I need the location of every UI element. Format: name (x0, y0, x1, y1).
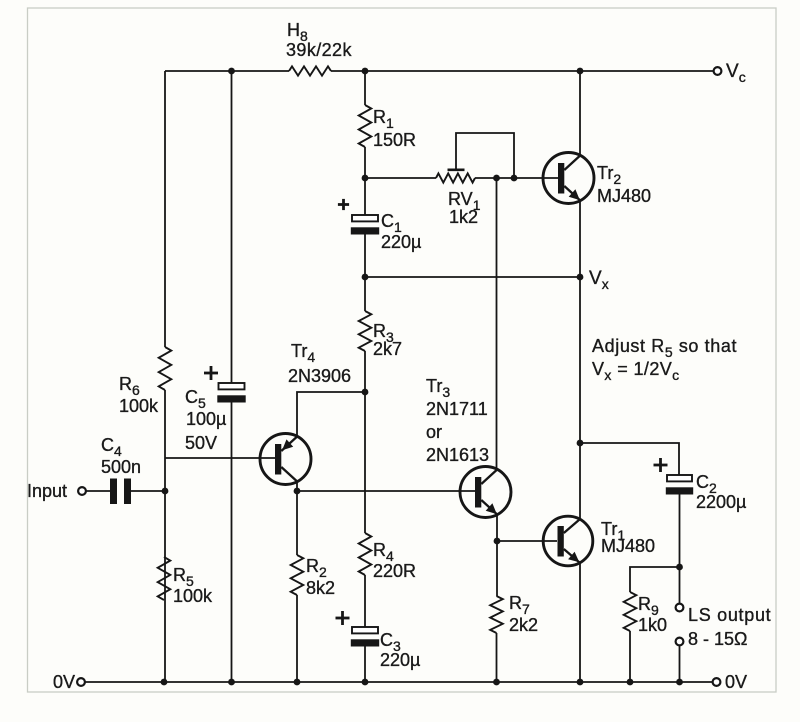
svg-text:Vx = 1/2Vc: Vx = 1/2Vc (592, 359, 680, 383)
plus sign C1 (338, 203, 349, 206)
capacitor C1 plates (352, 215, 378, 221)
svg-text:or: or (426, 422, 442, 442)
resistor R5 (158, 557, 171, 600)
wire - Tr2 emitter down to Tr1 collector (579, 201, 581, 520)
wire - R1/C1 node to RV1 (365, 177, 436, 179)
wire - Tr4 collector node down to R2 (296, 491, 298, 555)
junction dot C1/R3/Vx node (362, 274, 369, 281)
plus sign C2 (654, 464, 668, 467)
svg-text:R7: R7 (509, 593, 530, 617)
plus sign C5 (204, 372, 218, 375)
wire - C3 bottom to ground rail (364, 647, 366, 683)
wire - C5 branch from top rail (231, 71, 233, 383)
svg-text:2200µ: 2200µ (696, 492, 746, 512)
svg-text:C5: C5 (185, 387, 206, 411)
svg-text:R6: R6 (119, 374, 140, 398)
svg-text:R1: R1 (373, 107, 394, 131)
capacitor C3 plates (352, 627, 378, 633)
junction dot ground/Tr1 emitter (577, 679, 584, 686)
svg-text:39k/22k: 39k/22k (286, 40, 352, 60)
svg-text:150R: 150R (373, 130, 416, 150)
RV1 wiper tap bar (448, 169, 465, 172)
transistor Tr4 (2N3906) (260, 434, 311, 485)
terminal LS output bottom (676, 638, 684, 646)
transistor Tr2 (MJ480) (543, 153, 594, 204)
transistor Tr1 (MJ480) (543, 516, 593, 566)
junction dot top rail / R1 branch (362, 68, 369, 75)
svg-text:0V: 0V (53, 672, 75, 692)
wire - R1 to C1 (364, 147, 366, 215)
wire - Vc top rail right segment (331, 70, 714, 72)
svg-text:Tr2: Tr2 (597, 163, 621, 187)
junction dot ground/LS bottom (676, 679, 683, 686)
svg-text:Input: Input (27, 481, 67, 501)
svg-text:100µ: 100µ (186, 409, 226, 429)
junction dot Tr1 collector / C2 feed node (577, 440, 584, 447)
wire - Tr2 collector to top rail (579, 71, 581, 155)
svg-text:220µ: 220µ (381, 232, 421, 252)
svg-text:1k2: 1k2 (449, 207, 478, 227)
junction dot ground/C3 (362, 679, 369, 686)
svg-text:MJ480: MJ480 (601, 536, 655, 556)
svg-text:100k: 100k (173, 586, 213, 606)
wire - left branch down from top rail (164, 71, 166, 347)
wire - C5 bottom to ground rail (231, 403, 233, 683)
svg-text:Tr4: Tr4 (291, 341, 315, 365)
wire - C4 to bias node (131, 490, 165, 492)
svg-text:2k2: 2k2 (509, 615, 538, 635)
svg-text:2N3906: 2N3906 (288, 366, 351, 386)
resistor R3 (359, 311, 372, 351)
wire - Vc top rail left segment (165, 70, 289, 72)
wire - R4 to C3 (364, 575, 366, 627)
wire - R3 to R4 (364, 351, 366, 533)
svg-text:2N1711: 2N1711 (426, 399, 488, 419)
junction dot C2/R9 node (676, 564, 683, 571)
wire - Tr1 emitter to ground rail (579, 563, 581, 682)
resistor R2 (291, 555, 304, 595)
junction dot Tr3 emitter node (494, 538, 501, 545)
wire - top rail to R1 (364, 71, 366, 105)
capacitor C5 plates (219, 383, 245, 389)
wire - R7 to ground rail (496, 633, 498, 682)
capacitor C4 plates (110, 479, 117, 505)
wire - R2 to ground rail (296, 595, 298, 682)
svg-text:0V: 0V (725, 672, 747, 692)
plus sign C3 (336, 617, 350, 620)
junction dot RV1/Tr3 collector node (493, 175, 500, 182)
capacitor C2 plates (667, 475, 692, 481)
resistor R6 (159, 347, 172, 390)
svg-text:Vx: Vx (589, 268, 609, 292)
wire - Vx node horizontal (365, 276, 580, 278)
svg-text:1k0: 1k0 (638, 615, 667, 635)
junction dot RV1 wiper strap node (511, 175, 518, 182)
wire - Tr4 base line (165, 457, 275, 459)
wire - Tr4 collector node to Tr3 base (297, 490, 475, 492)
wire - Tr3 collector to RV1 node (496, 178, 498, 471)
junction dot Vx on output line (577, 274, 584, 281)
resistor R9 (624, 592, 637, 631)
junction dot R1/C1/RV1 node (362, 175, 369, 182)
wire - Vx node to R3 (364, 277, 366, 311)
wire - C1 bottom to Vx node (364, 235, 366, 278)
wire - Tr4 emitter up and over to R3/R4 node (297, 392, 365, 436)
wire - Tr3 emitter node to Tr1 base (497, 540, 557, 542)
wire - input terminal to C4 (86, 490, 110, 492)
junction dot ground/R9 (627, 679, 634, 686)
junction dot top rail / Tr2 collector (577, 68, 584, 75)
wire - RV1 to Tr2 base (475, 177, 558, 179)
junction dot C4/R5/R6 bias node (162, 488, 169, 495)
svg-text:C4: C4 (101, 435, 122, 459)
wire - Tr3 emitter down to R7/Tr1 base node (496, 515, 498, 541)
svg-text:50V: 50V (185, 433, 217, 453)
svg-text:LS output: LS output (688, 605, 771, 625)
wire - RV1 wiper strap (456, 133, 514, 178)
junction dot ground/C5 (228, 679, 235, 686)
wire - R9 top link (630, 567, 680, 592)
svg-text:2N1613: 2N1613 (426, 445, 489, 465)
junction dot ground/R2 (294, 679, 301, 686)
svg-text:R2: R2 (306, 556, 327, 580)
svg-text:Vc: Vc (726, 61, 746, 85)
svg-text:8 - 15Ω: 8 - 15Ω (688, 629, 747, 649)
terminal 0V right (713, 678, 721, 686)
wire - output node over to C2 (580, 443, 679, 475)
potentiometer RV1 (1k2) (436, 173, 475, 182)
svg-text:Tr3: Tr3 (426, 376, 450, 400)
svg-text:2k7: 2k7 (373, 339, 402, 359)
wire - 0V ground rail (85, 681, 713, 683)
junction dot top rail / C5 branch (228, 68, 235, 75)
terminal Input (78, 487, 86, 495)
svg-text:8k2: 8k2 (306, 578, 335, 598)
terminal 0V left (77, 678, 85, 686)
wire - Tr3 emitter node down to R7 (496, 541, 498, 596)
wire - R9 to ground rail (629, 631, 631, 682)
svg-text:500n: 500n (101, 457, 141, 477)
junction dot ground/R5 (161, 679, 168, 686)
terminal Vc (714, 67, 722, 75)
junction dot Tr4 collector node (294, 488, 301, 495)
transistor Tr3 (2N1711 or 2N1613) (460, 467, 511, 518)
svg-text:100k: 100k (119, 396, 159, 416)
svg-text:MJ480: MJ480 (597, 186, 651, 206)
junction dot R3/R4/Tr4 emitter node (362, 389, 369, 396)
svg-text:Adjust R5 so that: Adjust R5 so that (592, 336, 737, 360)
svg-text:220R: 220R (373, 561, 416, 581)
terminal LS output top (676, 604, 684, 612)
resistor R1 (359, 105, 372, 147)
resistor R8 (39k/22k) (289, 66, 331, 75)
junction dot ground/R7 (493, 679, 500, 686)
wire - LS bottom terminal to ground rail (679, 645, 681, 682)
resistor R7 (490, 596, 503, 633)
wire - C2 to LS output (679, 495, 681, 604)
wire - R6 bottom to ground rail (164, 390, 166, 682)
svg-text:220µ: 220µ (380, 650, 420, 670)
wire - Tr4 collector down to R2/Tr3 base node (296, 482, 298, 491)
resistor R4 (359, 533, 372, 575)
